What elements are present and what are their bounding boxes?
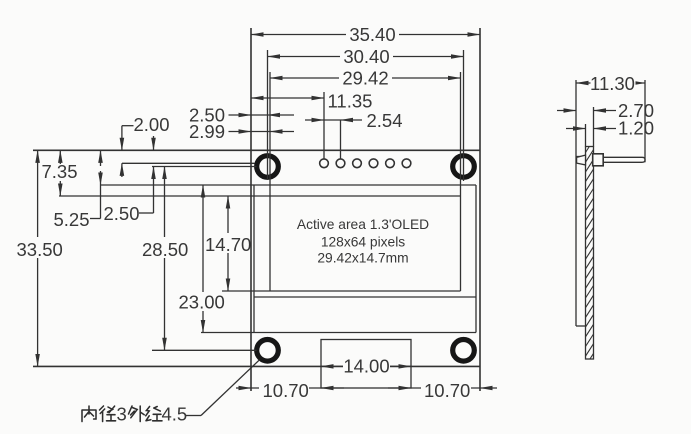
dim 23.00 glass height bbox=[202, 185, 204, 292]
svg-text:11.30: 11.30 bbox=[590, 73, 635, 94]
svg-text:28.50: 28.50 bbox=[142, 239, 188, 260]
dim 1.20 pcb thickness bbox=[585, 124, 587, 147]
pin2 extension (2.54) bbox=[340, 120, 342, 159]
svg-text:7.35: 7.35 bbox=[42, 161, 78, 182]
svg-text:2.54: 2.54 bbox=[367, 110, 403, 131]
pin hole 5 bbox=[386, 159, 395, 168]
dim 5.25 board top to glass top bbox=[100, 150, 102, 166]
hole-centre extension (30.40 left) bbox=[267, 50, 269, 180]
pin-centre extension line (2.00) bbox=[122, 162, 255, 164]
top hole-centre extension line (2.50/28.50) bbox=[152, 166, 257, 168]
dim 2.54 pin pitch bbox=[305, 119, 324, 121]
side view: pin header block bbox=[593, 154, 604, 166]
polarizer lower line bbox=[254, 296, 476, 298]
board bottom edge + left extension (also 14.00 dim line) bbox=[33, 365, 480, 367]
leader line to bottom-left hole bbox=[186, 415, 201, 417]
pin hole 6 bbox=[402, 159, 411, 168]
board left edge + extensions bbox=[250, 28, 252, 391]
board right edge + extensions bbox=[479, 28, 481, 391]
svg-text:14.00: 14.00 bbox=[343, 356, 389, 377]
active area left edge + top extension (29.42/2.99) bbox=[269, 72, 271, 291]
svg-text:128x64 pixels: 128x64 pixels bbox=[321, 234, 405, 249]
board top edge + left extension bbox=[33, 149, 480, 151]
svg-text:10.70: 10.70 bbox=[424, 380, 470, 401]
glass right edge bbox=[475, 185, 477, 333]
mounting hole bottom-right (outer 4.5 / inner 3) bbox=[453, 340, 475, 362]
glass bottom edge + left extension (23.00) bbox=[201, 332, 476, 334]
dim 11.30 overall depth bbox=[644, 80, 646, 162]
dim 7.35 board top to active top bbox=[59, 150, 61, 164]
side view: PCB bar bbox=[586, 147, 594, 360]
pin hole 2 bbox=[336, 159, 345, 168]
pin hole 3 bbox=[353, 159, 362, 168]
glass top edge + left extension (5.25 / 23.00) bbox=[101, 184, 477, 186]
dim 35.40 overall width bbox=[251, 34, 480, 36]
mounting hole bottom-left (outer 4.5 / inner 3) bbox=[257, 340, 279, 362]
active area top edge + left extension (7.35/14.70) bbox=[59, 195, 461, 197]
active area bottom edge + left extension (14.70) bbox=[222, 290, 461, 292]
svg-text:30.40: 30.40 bbox=[343, 46, 389, 67]
dim 2.70 glass front to pcb back bbox=[593, 107, 595, 147]
side view: OLED glass bbox=[575, 80, 577, 326]
svg-text:35.40: 35.40 bbox=[349, 24, 395, 45]
mounting hole top-left (outer 4.5 / inner 3) bbox=[257, 156, 279, 178]
dim 11.35 board edge to pin1 bbox=[251, 97, 324, 99]
bottom hole-centre extension line (28.50) bbox=[152, 349, 257, 351]
note text: inner dia 3 outer dia 4.5 (内径3外经4.5) bbox=[82, 406, 162, 422]
side view: clinched pin bump bbox=[577, 155, 586, 165]
svg-text:2.00: 2.00 bbox=[134, 114, 170, 135]
active area right edge + top extension (29.42) bbox=[460, 72, 462, 291]
dim 29.42 active width bbox=[270, 77, 461, 79]
dim 30.40 hole spacing bbox=[268, 56, 464, 58]
svg-text:2.50: 2.50 bbox=[104, 203, 140, 224]
pin hole 4 bbox=[369, 159, 378, 168]
pin hole 1 bbox=[320, 159, 329, 168]
dim 33.50 overall height bbox=[37, 150, 39, 237]
side view: pin bbox=[603, 157, 645, 162]
svg-text:14.70: 14.70 bbox=[205, 234, 251, 255]
pin1 extension (11.35 / 2.54) bbox=[323, 92, 325, 159]
dim 14.00 connector box width bbox=[321, 365, 344, 367]
pin header box 14.00 wide bbox=[321, 340, 411, 389]
dim 10.70 left bbox=[236, 387, 251, 389]
svg-text:Active area 1.3'OLED: Active area 1.3'OLED bbox=[297, 217, 429, 232]
dim 28.50 hole spacing vertical bbox=[164, 167, 166, 238]
svg-text:2.99: 2.99 bbox=[189, 121, 225, 142]
dim 14.70 active height bbox=[227, 196, 229, 233]
svg-text:3: 3 bbox=[117, 404, 127, 425]
svg-text:23.00: 23.00 bbox=[179, 292, 225, 313]
svg-text:1.20: 1.20 bbox=[618, 118, 654, 139]
svg-text:29.42: 29.42 bbox=[342, 68, 388, 89]
svg-text:33.50: 33.50 bbox=[17, 239, 63, 260]
dim 10.70 right bbox=[388, 387, 411, 389]
side view: PCB hatching bbox=[586, 147, 594, 360]
mounting hole top-right (outer 4.5 / inner 3) bbox=[453, 156, 475, 178]
svg-text:5.25: 5.25 bbox=[54, 209, 90, 230]
svg-text:29.42x14.7mm: 29.42x14.7mm bbox=[317, 250, 408, 265]
svg-text:10.70: 10.70 bbox=[263, 380, 309, 401]
hole-centre extension (30.40 right) bbox=[463, 50, 465, 181]
svg-text:11.35: 11.35 bbox=[328, 91, 373, 112]
glass left edge bbox=[253, 185, 255, 333]
svg-text:4.5: 4.5 bbox=[162, 404, 188, 425]
